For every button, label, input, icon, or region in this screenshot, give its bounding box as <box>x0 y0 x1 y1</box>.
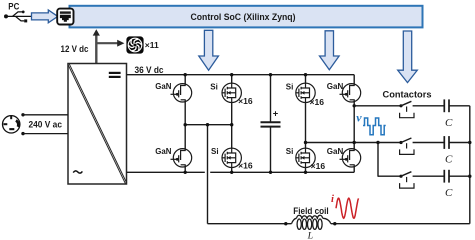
svg-text:12 V dc: 12 V dc <box>61 43 89 54</box>
svg-text:Si: Si <box>211 147 219 156</box>
v waveform (blue PWM) <box>363 118 386 135</box>
contactor 2 switch <box>399 141 402 144</box>
top dc rail <box>127 74 355 76</box>
svg-text:36 V dc: 36 V dc <box>135 64 164 75</box>
240 V outlet <box>3 116 20 133</box>
svg-text:L: L <box>307 230 313 240</box>
contactor 3 switch <box>399 175 402 178</box>
svg-text:×16: ×16 <box>238 97 253 106</box>
dc link capacitor C1 <box>270 75 272 123</box>
junction dots <box>184 73 187 76</box>
GaN top-left source lead <box>184 102 186 125</box>
svg-text:Control SoC (Xilinx Zynq): Control SoC (Xilinx Zynq) <box>191 11 296 22</box>
ac symbol <box>73 171 82 173</box>
transistor GaN bottom-right (GaN) <box>340 149 361 167</box>
contactor bus down <box>377 143 379 177</box>
svg-text:C: C <box>445 187 453 199</box>
svg-text:Field coil: Field coil <box>293 205 328 216</box>
GaN top-right drain lead <box>353 75 355 84</box>
svg-text:×11: ×11 <box>145 41 160 50</box>
right side bus <box>469 106 471 224</box>
GaN bottom-right source lead <box>353 167 355 172</box>
SoC arrow 1 <box>199 30 219 70</box>
svg-text:+: + <box>273 107 279 118</box>
12 V dc line <box>95 35 97 64</box>
Si top-right source lead <box>305 103 307 143</box>
svg-text:×16: ×16 <box>238 162 253 171</box>
wire ac bottom <box>21 132 24 135</box>
arrow PC to SoC <box>32 10 58 23</box>
Si top-right drain lead <box>305 75 307 83</box>
bottom dc rail right <box>210 171 354 173</box>
SoC arrow 2 <box>320 31 340 70</box>
GaN top-right source lead <box>353 102 355 106</box>
Si bottom-left drain lead <box>231 125 233 148</box>
left output wire down <box>207 125 209 224</box>
svg-text:Si: Si <box>286 147 294 156</box>
GaN bottom-left source lead <box>184 167 186 172</box>
wire ac top <box>21 113 24 116</box>
svg-text:Si: Si <box>286 82 294 91</box>
svg-text:GaN: GaN <box>155 82 171 91</box>
svg-text:GaN: GaN <box>327 147 344 156</box>
GaN bottom-right drain lead <box>353 143 355 149</box>
svg-text:PC: PC <box>8 0 19 11</box>
svg-text:v: v <box>356 111 362 125</box>
svg-text:Contactors: Contactors <box>383 88 432 99</box>
Si bottom-left source lead <box>231 168 233 173</box>
right leg mid rail <box>306 142 379 144</box>
Si bottom-right drain lead <box>305 143 307 149</box>
svg-text:Si: Si <box>210 82 218 91</box>
transistor GaN bottom-left (GaN) <box>171 149 192 167</box>
i waveform (red sine) <box>336 198 359 218</box>
Si top-left source lead <box>231 103 233 125</box>
transistor Si top-right (Si MOSFET) <box>296 83 315 102</box>
contactor row 1 wire <box>354 105 401 107</box>
svg-text:C: C <box>445 117 453 129</box>
svg-text:GaN: GaN <box>327 82 344 91</box>
fan icon <box>126 36 143 53</box>
Si bottom-right source lead <box>305 168 307 173</box>
Si top-left drain lead <box>231 75 233 83</box>
left leg mid rail <box>185 124 232 126</box>
bottom dc rail left <box>127 171 205 173</box>
svg-text:GaN: GaN <box>155 147 171 156</box>
wire to fan <box>96 42 117 44</box>
contactor 1 actuator <box>406 107 408 112</box>
right output node wire <box>353 106 355 143</box>
GaN bottom-left drain lead <box>184 125 186 149</box>
control SoC bar <box>70 6 423 28</box>
converter diagonal <box>68 64 126 184</box>
ethernet connector icon <box>57 9 73 25</box>
contactor 3 actuator <box>406 177 408 182</box>
field coil inductor L <box>292 218 331 224</box>
transistor GaN top-left (GaN) <box>171 84 192 102</box>
svg-text:×16: ×16 <box>310 98 325 107</box>
transistor Si bottom-right (Si MOSFET) <box>296 148 315 167</box>
bottom return wire <box>208 223 292 225</box>
svg-text:i: i <box>331 194 334 205</box>
capacitor C row 3 <box>443 170 445 183</box>
contactor 1 switch <box>399 104 402 107</box>
SoC arrow 3 <box>398 31 418 83</box>
dc symbol <box>109 72 121 74</box>
AC-DC converter box <box>68 64 127 185</box>
svg-text:240 V ac: 240 V ac <box>29 119 63 130</box>
svg-text:×16: ×16 <box>311 162 326 171</box>
contactor 2 actuator <box>406 143 408 148</box>
transistor Si bottom-left (Si MOSFET) <box>222 148 241 167</box>
USB symbol <box>6 12 32 21</box>
contactor row 3 wire <box>378 175 401 177</box>
transistor GaN top-right (GaN) <box>340 84 361 102</box>
transistor Si top-left (Si MOSFET) <box>222 83 241 102</box>
capacitor C row 1 <box>443 99 445 112</box>
GaN top-left drain lead <box>184 75 186 84</box>
svg-text:C: C <box>445 154 453 166</box>
capacitor C row 2 <box>443 136 445 149</box>
contactor row 2 wire <box>378 142 401 144</box>
